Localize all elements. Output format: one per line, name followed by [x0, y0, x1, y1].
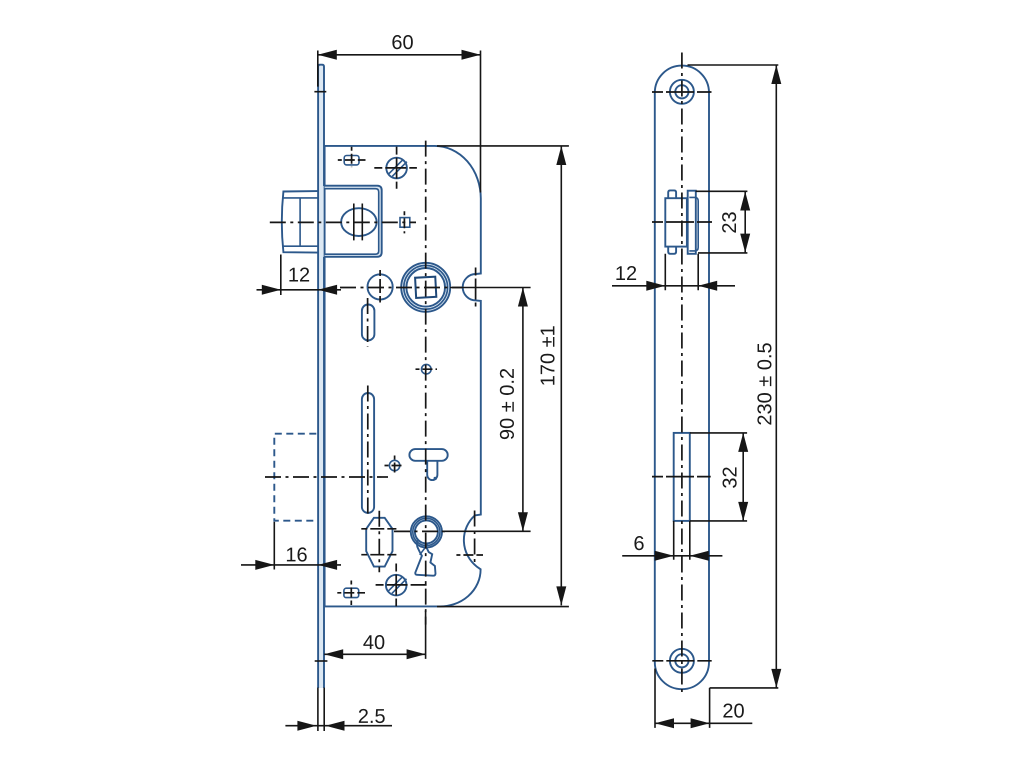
- key wing (stadium + stem): [409, 449, 447, 461]
- faceplate break tick lower: [315, 660, 328, 662]
- dimension 60 (top): [314, 51, 480, 193]
- bottom screw rings: [670, 649, 694, 673]
- bottom screw cross line: [652, 660, 711, 662]
- dimension 6 (deadbolt thickness): [622, 521, 722, 560]
- dimension 16 (deadbolt protrusion): [241, 522, 341, 570]
- keyhole centre line: [394, 530, 445, 532]
- slot 2 centre line: [367, 386, 369, 518]
- guide circle left of hub: [368, 274, 393, 299]
- dimension 2.5 (faceplate thickness): [285, 688, 392, 731]
- bottom pin obround: [344, 588, 359, 597]
- small cross circle left of key: [389, 460, 399, 470]
- keyhole skirt: [415, 540, 435, 575]
- faceplate plate with rounded ends: [655, 66, 709, 690]
- main vertical centre line: [681, 53, 683, 696]
- slot 2 (long obround): [362, 393, 374, 513]
- top screw rings: [670, 80, 694, 104]
- tiny square cross line: [403, 211, 405, 233]
- screw cross lines: [374, 147, 417, 189]
- dimension 12 (latch, side view): [612, 254, 735, 290]
- lock body outline: [325, 146, 481, 607]
- dimension 23 (latch height): [696, 191, 748, 253]
- octagon centre lines: [378, 511, 380, 573]
- latch follower circle: [341, 208, 377, 236]
- spindle square: [415, 277, 436, 298]
- hub centre line: [340, 287, 462, 289]
- deadbolt centre line: [652, 476, 711, 478]
- latch centre line: [652, 221, 712, 223]
- deadbolt (hidden, dashed): [274, 434, 316, 521]
- main vertical centre line: [425, 141, 427, 625]
- deadbolt centre line: [265, 476, 388, 478]
- deadbolt side view: [674, 433, 690, 521]
- latch centre line: [270, 221, 416, 223]
- dimension 32 (deadbolt height): [690, 433, 747, 521]
- guide circle centre line: [379, 270, 381, 303]
- bottom fixing screw (slotted): [386, 575, 407, 596]
- dimension 40 (backset): [324, 611, 425, 659]
- faceplate strip pale fill: [318, 65, 324, 688]
- dimension 20 (plate width): [655, 669, 752, 728]
- spindle hub (three rings): [401, 263, 450, 312]
- top pin obround: [344, 156, 359, 165]
- lever pack octagon: [366, 518, 392, 567]
- latch bolt head: [282, 191, 318, 253]
- latch slot chords: [354, 204, 363, 241]
- slot 1 (short obround): [362, 305, 375, 341]
- top fixing screw (slotted): [386, 158, 407, 179]
- obround cross lines: [338, 147, 366, 167]
- notch centre lines: [475, 268, 477, 307]
- dimension 170 +-1 (body height): [437, 146, 569, 607]
- small cross circle on centre line: [422, 364, 432, 374]
- dimension 230 +-0.5 (plate height): [688, 65, 779, 688]
- faceplate (front strip): [318, 65, 324, 688]
- top screw cross line: [652, 91, 712, 93]
- dimension 90 +-0.2 (hub to key): [442, 288, 531, 532]
- tiny square hole: [400, 218, 410, 228]
- latch bolt case: [325, 186, 382, 257]
- slot 1 centre line: [367, 298, 369, 347]
- latch bolt side view: [665, 198, 687, 246]
- small cross circle ticks: [416, 368, 438, 370]
- dimension 12 (latch protrusion): [257, 255, 342, 296]
- keyhole rings: [411, 516, 442, 547]
- latch bolt case band fill: [325, 187, 381, 255]
